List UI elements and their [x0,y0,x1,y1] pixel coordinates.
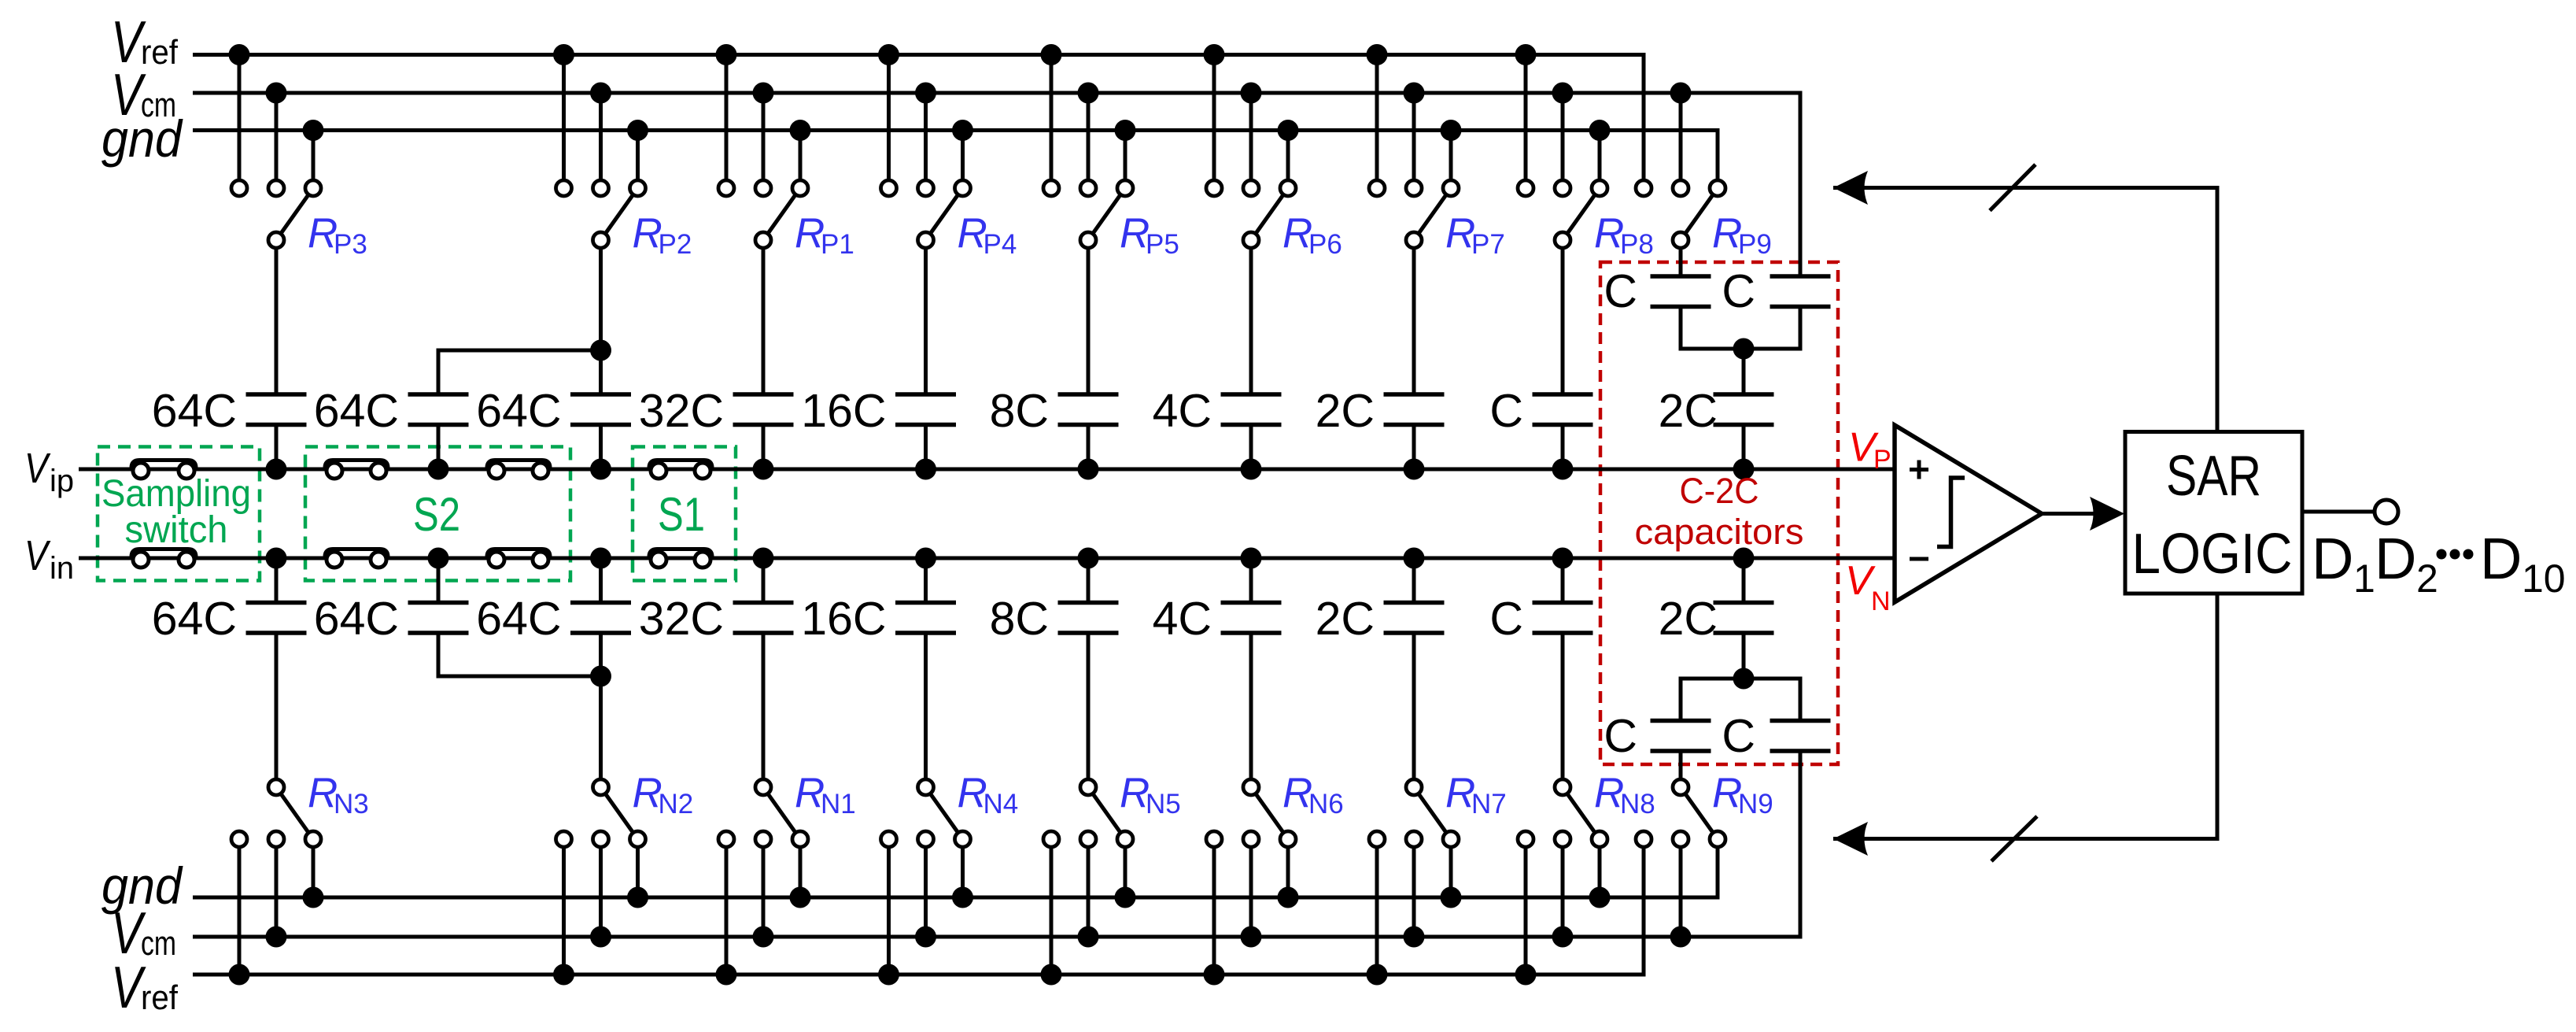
label Vref (top rail) [111,9,179,75]
switch RN7 (3-way selector to gnd/Vcm/Vref) [1367,633,1462,986]
value label 64C (top) [476,385,561,437]
value label C (bottom-left C-2C cap) [1604,710,1637,762]
wire Vip bus (top plate bus / VP) [79,468,1895,472]
value label 64C (top) [314,385,399,437]
label RN7 [1445,770,1507,819]
label VN (node) [1845,558,1891,616]
capacitor 2C (top, series) [1714,394,1774,469]
label gnd (top rail) [101,109,183,168]
rail Vcm (bottom) [193,751,1800,937]
value label C (top-left C-2C cap) [1604,265,1637,317]
svg-text:P: P [1873,445,1891,475]
junction dot on Vip bus x=763.5 [590,459,611,480]
svg-text:P1: P1 [821,229,854,260]
svg-text:C: C [1722,265,1755,317]
bus-width slash (top) [1990,165,2035,211]
svg-text:16C: 16C [801,593,886,645]
switch RP2 (3-way selector to Vref/Vcm/gnd) [553,44,648,394]
svg-text:D: D [2312,526,2353,591]
svg-text:C: C [1489,593,1523,645]
svg-text:in: in [50,551,74,586]
switch RN8 (3-way selector to gnd/Vcm/Vref) [1515,633,1611,986]
svg-text:V: V [24,445,51,492]
label RN8 [1594,770,1655,819]
svg-text:N5: N5 [1146,789,1181,819]
capacitor 2C (top row, x=1797) [1384,394,1445,469]
wire jog: bottom second 64C to RN2 line [438,633,601,676]
svg-text:32C: 32C [639,385,724,437]
switch RN1 (3-way selector to gnd/Vcm/Vref) [716,633,811,986]
capacitor 64C (bottom row, x=557) [408,558,469,633]
junction dot on Vip bus x=2216 [1733,459,1755,480]
value label 4C (bottom) [1153,593,1212,645]
switch RP9 (3-way selector to Vref/Vcm/gnd) [1636,83,1725,277]
svg-text:gnd: gnd [101,109,183,168]
junction dot on Vin bus x=1383 [1078,548,1099,569]
label Vcm (top rail) [111,61,176,128]
wire C-C node (bottom) [1681,633,1800,721]
svg-text:N9: N9 [1738,789,1773,819]
rail gnd (top) [193,131,1718,189]
label gnd (bottom rail) [101,856,183,915]
svg-text:N2: N2 [659,789,694,819]
value label 32C (bottom) [639,593,724,645]
svg-text:cm: cm [141,924,176,963]
junction dot on Vip bus x=557 [428,459,449,480]
svg-text:P6: P6 [1308,229,1342,260]
junction dot on Vip bus x=1590 [1241,459,1262,480]
junction dot on Vin bus x=351 [266,548,287,569]
label RN4 [958,770,1019,819]
switch S1 on Vin [649,549,712,568]
svg-text:16C: 16C [801,385,886,437]
label RP4 [958,210,1017,260]
label RP5 [1120,210,1179,260]
switch RP8 (3-way selector to Vref/Vcm/gnd) [1515,44,1611,394]
label RN5 [1120,770,1181,819]
switch RP6 (3-way selector to Vref/Vcm/gnd) [1204,44,1299,394]
value label C (bottom) [1489,593,1523,645]
svg-text:P3: P3 [334,229,367,260]
svg-text:32C: 32C [639,593,724,645]
output terminal circle [2375,500,2398,523]
capacitor 32C (bottom row, x=970) [733,558,794,633]
wire comparator output [2042,512,2094,516]
svg-text:P4: P4 [984,229,1017,260]
wire jog: top second 64C to RP2 line [438,350,601,394]
svg-text:SAR: SAR [2166,445,2261,508]
junction dot on Vip bus x=970 [753,459,774,480]
svg-text:C-2C: C-2C [1680,471,1759,511]
label RP9 [1712,210,1772,260]
wire Vin bus (bottom plate bus / VN) [79,557,1895,560]
rail Vref (top) [193,55,1644,189]
capacitor 2C (bottom, series) [1714,558,1774,633]
svg-text:S2: S2 [413,488,460,541]
svg-text:LOGIC: LOGIC [2132,523,2293,586]
C-2C capacitors box (red dashed) [1600,262,1838,764]
switch RN9 (3-way selector to gnd/Vcm/Vref) [1636,751,1725,948]
wire C-C node (top) [1681,307,1800,395]
value label 64C (top) [152,385,237,437]
switch group S2 box (green dashed) [305,447,570,581]
svg-text:2C: 2C [1316,385,1375,437]
op-amp comparator U1 [1895,425,2042,602]
junction dot on Vip bus x=1986 [1552,459,1574,480]
label D1D2...D10 output bits [2312,526,2566,601]
svg-text:P9: P9 [1738,229,1772,260]
switch group S1 box (green dashed) [633,447,736,581]
switch S2 (right pair) on Vip [487,461,550,479]
svg-text:P8: P8 [1620,229,1654,260]
svg-text:N8: N8 [1620,789,1655,819]
svg-text:N7: N7 [1471,789,1507,819]
switch RN3 (3-way selector to gnd/Vcm/Vref) [229,633,324,986]
switch RN5 (3-way selector to gnd/Vcm/Vref) [1041,633,1136,986]
label Vcm (bottom rail) [111,900,176,966]
value label 64C (bottom) [314,593,399,645]
value label 32C (top) [639,385,724,437]
capacitor 16C (top row, x=1176.5) [895,394,956,469]
value label 2C (top) [1316,385,1375,437]
rail Vcm (top) [193,93,1800,276]
switch S2 (left pair) on Vin [325,549,388,568]
svg-text:V: V [24,532,51,579]
svg-text:N: N [1871,586,1891,616]
wire SAR output to D pins [2302,510,2375,514]
SAR LOGIC block [2125,432,2302,594]
value label 16C (bottom) [801,593,886,645]
label Sampling switch [101,473,251,551]
switch RP3 (3-way selector to Vref/Vcm/gnd) [229,44,324,394]
value label 2C (top series cap) [1659,385,1718,437]
svg-text:64C: 64C [476,593,561,645]
label RP8 [1594,210,1654,260]
label VP (node) [1848,425,1891,475]
capacitor C (C-2C bottom left) [1651,679,1711,751]
svg-text:4C: 4C [1153,593,1212,645]
junction dot on Vin bus x=970 [753,548,774,569]
value label 64C (bottom) [476,593,561,645]
capacitor 8C (bottom row, x=1383) [1058,558,1119,633]
switch RN6 (3-way selector to gnd/Vcm/Vref) [1204,633,1299,986]
junction dot on Vin bus x=1590 [1241,548,1262,569]
junction dot on Vin bus x=1986 [1552,548,1574,569]
svg-text:8C: 8C [990,593,1049,645]
label SAR [2166,445,2261,508]
label RN3 [308,770,369,819]
label RP1 [795,210,854,260]
switch RN4 (3-way selector to gnd/Vcm/Vref) [878,633,973,986]
arrowhead into SAR logic [2090,497,2124,531]
label Vip (input) [24,445,74,498]
junction dot on Vip bus x=1383 [1078,459,1099,480]
junction dot on Vin bus x=1176.5 [915,548,936,569]
svg-text:64C: 64C [314,593,399,645]
capacitor 16C (bottom row, x=1176.5) [895,558,956,633]
svg-text:2C: 2C [1659,593,1718,645]
sampling switch on Vip [131,461,196,479]
switch S1 on Vip [649,461,712,479]
switch S2 (left pair) on Vip [325,461,388,479]
capacitor C (C-2C top left) [1651,276,1711,349]
value label 4C (top) [1153,385,1212,437]
junction dot on Vin bus x=1797 [1404,548,1425,569]
value label 64C (bottom) [152,593,237,645]
svg-text:2C: 2C [1659,385,1718,437]
svg-text:C: C [1604,710,1637,762]
svg-text:C: C [1722,710,1755,762]
junction dot on Vin bus x=2216 [1733,548,1755,569]
svg-text:P7: P7 [1471,229,1505,260]
capacitor C (C-2C top right, tied to Vcm) [1770,276,1831,349]
capacitor 4C (bottom row, x=1590) [1221,558,1282,633]
switch RP1 (3-way selector to Vref/Vcm/gnd) [716,44,811,394]
value label C (bottom-right C-2C cap) [1722,710,1755,762]
svg-text:2C: 2C [1316,593,1375,645]
capacitor 8C (top row, x=1383) [1058,394,1119,469]
capacitor 4C (top row, x=1590) [1221,394,1282,469]
junction dot on RP2 line [590,340,611,361]
junction dot on RN2 line [590,666,611,687]
label RP7 [1445,210,1505,260]
value label 8C (bottom) [990,593,1049,645]
value label C (top-right C-2C cap) [1722,265,1755,317]
sampling switch group box (green dashed) [98,447,260,581]
junction dot C-C node (bottom) [1733,668,1755,690]
svg-text:ref: ref [141,33,179,72]
value label 2C (bottom) [1316,593,1375,645]
label LOGIC [2132,523,2293,586]
label S2 [413,488,460,541]
svg-text:1: 1 [2353,557,2375,601]
svg-text:4C: 4C [1153,385,1212,437]
svg-text:switch: switch [125,509,228,551]
svg-text:ref: ref [141,978,179,1017]
svg-text:P2: P2 [659,229,692,260]
label RP6 [1282,210,1342,260]
label C-2C capacitors [1635,471,1804,552]
feedback bus to P-side switches (top) [1833,188,2217,432]
svg-text:C: C [1604,265,1637,317]
label RN9 [1712,770,1773,819]
arrowhead feedback top [1833,171,1868,205]
capacitor 32C (top row, x=970) [733,394,794,469]
value label 2C (bottom series cap) [1659,593,1718,645]
rail gnd (bottom) [193,839,1718,897]
capacitor C (C-2C bottom right, tied to Vcm) [1770,679,1831,751]
capacitor C (bottom row, x=1986) [1533,558,1593,633]
svg-text:S1: S1 [658,488,705,541]
svg-text:10: 10 [2522,557,2566,601]
junction dot on Vin bus x=763.5 [590,548,611,569]
arrowhead feedback bottom [1833,822,1868,856]
junction dot on Vin bus x=557 [428,548,449,569]
label RP3 [308,210,367,260]
junction dot C-C node (top) [1733,338,1755,360]
svg-text:C: C [1489,385,1523,437]
svg-text:N4: N4 [984,789,1019,819]
value label 16C (top) [801,385,886,437]
svg-text:D: D [2480,526,2522,591]
switch RN2 (3-way selector to gnd/Vcm/Vref) [553,633,648,986]
label RN2 [633,770,694,819]
label RN1 [795,770,856,819]
value label 8C (top) [990,385,1049,437]
switch S2 (right pair) on Vin [487,549,550,568]
feedback bus to N-side switches (bottom) [1833,594,2217,839]
svg-text:64C: 64C [152,385,237,437]
junction dot on Vip bus x=1797 [1404,459,1425,480]
sampling switch on Vin [131,549,196,568]
svg-text:D: D [2375,526,2416,591]
switch RP4 (3-way selector to Vref/Vcm/gnd) [878,44,973,394]
capacitor 64C (bottom row, x=763.5) [570,558,631,633]
svg-text:64C: 64C [314,385,399,437]
svg-text:2: 2 [2416,557,2438,601]
switch RP5 (3-way selector to Vref/Vcm/gnd) [1041,44,1136,394]
svg-text:64C: 64C [152,593,237,645]
capacitor 64C (bottom row, x=351) [246,558,307,633]
capacitor 64C (top row, x=763.5) [570,394,631,469]
label Vref (bottom rail) [111,954,179,1020]
svg-text:N3: N3 [334,789,369,819]
svg-text:64C: 64C [476,385,561,437]
capacitor C (top row, x=1986) [1533,394,1593,469]
label S1 [658,488,705,541]
capacitor 64C (top row, x=557) [408,394,469,469]
label Vin (input) [24,532,74,586]
svg-text:ip: ip [50,464,74,498]
value label C (top) [1489,385,1523,437]
junction dot on Vip bus x=1176.5 [915,459,936,480]
junction dot on Vip bus x=351 [266,459,287,480]
svg-text:N6: N6 [1308,789,1344,819]
label RP2 [633,210,692,260]
svg-text:capacitors: capacitors [1635,512,1804,552]
rail Vref (bottom) [193,839,1644,975]
switch RP7 (3-way selector to Vref/Vcm/gnd) [1367,44,1462,394]
svg-text:N1: N1 [821,789,856,819]
svg-text:P5: P5 [1146,229,1179,260]
svg-text:8C: 8C [990,385,1049,437]
capacitor 2C (bottom row, x=1797) [1384,558,1445,633]
label RN6 [1282,770,1344,819]
capacitor 64C (top row, x=351) [246,394,307,469]
bus-width slash (bottom) [1991,816,2037,861]
